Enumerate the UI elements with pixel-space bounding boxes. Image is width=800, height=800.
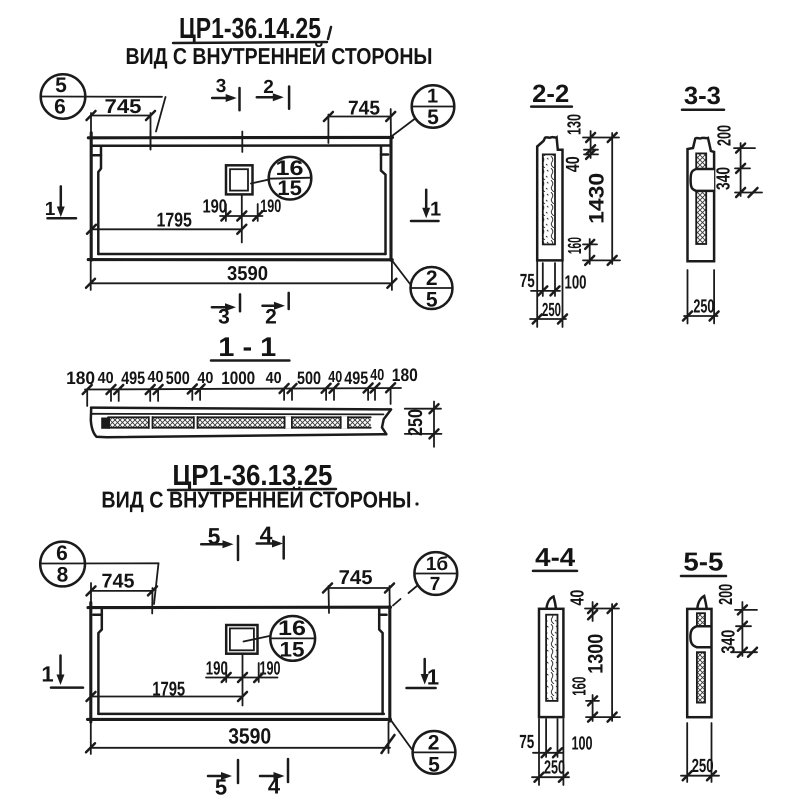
svg-text:2: 2	[428, 732, 440, 755]
section arrow 1 (right of top panel)	[411, 190, 441, 221]
title ЦР1-36.13.25 (bottom drawing)	[168, 460, 336, 492]
dimension 1795 (bottom panel)	[87, 679, 248, 702]
svg-text:75: 75	[520, 271, 535, 292]
rib gap 1 (section 1-1)	[149, 417, 153, 429]
svg-text:190: 190	[202, 197, 227, 218]
section 3-3 void lower hatched strip	[696, 191, 706, 244]
view marker 4 (bottom of bottom panel)	[260, 759, 288, 799]
svg-text:7: 7	[430, 574, 441, 595]
extension stubs below dimension line (section 1-1)	[87, 388, 390, 406]
dimension 340 (section 3-3)	[714, 167, 762, 197]
svg-text:180: 180	[392, 365, 418, 385]
section 5-5 void upper hatched strip	[697, 613, 705, 626]
svg-text:250: 250	[542, 300, 561, 321]
bottom dimensions 75/100/250 (section 4-4)	[519, 719, 592, 785]
left end outline (section 1-1)	[91, 408, 107, 437]
svg-text:40: 40	[266, 370, 282, 387]
panel body second line (section 1-1)	[91, 413, 383, 416]
section arrow 1 (left of top panel)	[45, 186, 76, 220]
section 5-5 body outline	[687, 609, 711, 717]
view marker 3 (top)	[212, 76, 239, 110]
svg-text:5: 5	[55, 74, 67, 97]
svg-text:1795: 1795	[156, 210, 192, 232]
svg-text:100: 100	[572, 734, 593, 755]
section 5-5 top tongue spike	[697, 596, 707, 609]
svg-text:1000: 1000	[221, 368, 255, 388]
svg-text:495: 495	[344, 368, 368, 388]
svg-text:160: 160	[569, 677, 590, 696]
opening centreline (bottom panel)	[242, 654, 244, 706]
svg-text:190: 190	[206, 659, 228, 680]
dimension 3590 (bottom panel)	[86, 722, 395, 754]
section arrow 1 (left of bottom panel)	[41, 656, 83, 688]
opening square (top panel)	[226, 165, 253, 194]
marker circle 2/5 (top panel)	[392, 261, 452, 312]
left end rib solid cut (section 1-1)	[101, 418, 110, 429]
svg-text:3590: 3590	[228, 724, 271, 749]
view marker 4 (top of bottom panel)	[257, 522, 284, 559]
section 3-3 body outline	[688, 138, 715, 261]
view marker 5 (top of bottom panel)	[201, 523, 238, 560]
section 2-2 void channel with fill	[543, 154, 555, 244]
svg-text:1: 1	[430, 199, 441, 221]
dimension 200 (section 5-5)	[716, 584, 757, 656]
svg-text:2-2: 2-2	[532, 80, 569, 108]
svg-text:1430: 1430	[585, 173, 608, 224]
svg-text:340: 340	[714, 167, 735, 190]
panel outline (bottom panel plan view)	[88, 603, 391, 723]
dimension 160 (section 2-2)	[565, 237, 620, 265]
dimension 745 left (bottom panel)	[87, 571, 158, 614]
svg-text:190: 190	[260, 659, 281, 680]
view marker 3 (bottom of top panel)	[212, 294, 240, 328]
svg-text:1: 1	[45, 199, 56, 220]
rib gap 4 (section 1-1)	[341, 417, 348, 429]
svg-text:130: 130	[565, 114, 586, 135]
svg-text:ЦР1-36.14.25: ЦР1-36.14.25	[179, 13, 321, 45]
insulation band with hatch (section 1-1)	[108, 417, 371, 427]
section 3-3 void upper hatched strip	[696, 153, 706, 169]
section 4-4 body outline	[539, 609, 563, 717]
panel inner bottom line (bottom panel)	[98, 713, 383, 716]
svg-text:5: 5	[427, 106, 439, 129]
axis tick at x=150 crossing panel top edge	[150, 131, 152, 150]
dimension 340 (section 5-5)	[718, 626, 757, 657]
svg-text:495: 495	[121, 368, 145, 388]
dimension 745 right (bottom panel)	[323, 567, 394, 613]
opening centreline (top panel)	[241, 194, 243, 242]
svg-text:1 - 1: 1 - 1	[218, 332, 276, 362]
svg-text:75: 75	[519, 732, 534, 753]
title 1 - 1 (middle section)	[211, 332, 289, 362]
svg-text:40: 40	[370, 367, 384, 384]
svg-text:3-3: 3-3	[684, 82, 721, 110]
dimension labels row (section 1-1)	[66, 365, 418, 388]
svg-text:200: 200	[715, 125, 736, 146]
panel outline (top panel plan view)	[88, 133, 392, 260]
svg-text:5: 5	[428, 754, 440, 777]
svg-text:500: 500	[297, 368, 321, 388]
section 5-5 void lower hatched strip	[697, 652, 705, 702]
dimension 200 (section 3-3)	[715, 125, 756, 196]
svg-text:745: 745	[339, 567, 373, 589]
section 4-4 top tongue spike	[547, 597, 557, 609]
dimension 250 (section 3-3)	[683, 270, 719, 324]
dimension 745 left (top panel)	[87, 96, 156, 150]
view marker 2 (top)	[257, 77, 289, 109]
marker circle 2/5 (bottom panel)	[391, 720, 456, 777]
bottom slab line (section 1-1)	[107, 434, 386, 437]
marker circle 6/8	[40, 542, 158, 604]
dimension 190/190 (bottom panel)	[206, 659, 281, 683]
marker circle 16/15 (top panel)	[251, 157, 311, 200]
svg-text:4-4: 4-4	[535, 542, 576, 572]
opening square (bottom panel)	[226, 625, 257, 654]
rib gap 3 (section 1-1)	[285, 417, 292, 429]
svg-text:1б: 1б	[426, 554, 448, 575]
svg-text:250: 250	[544, 758, 565, 779]
svg-text:ВИД С ВНУТРЕННЕЙ СТОРОНЫ: ВИД С ВНУТРЕННЕЙ СТОРОНЫ	[101, 487, 411, 513]
dimension 1430 (section 2-2)	[585, 133, 616, 265]
title ЦР1-36.14.25 (top drawing)	[173, 13, 331, 45]
marker circle 5/6	[41, 74, 166, 132]
svg-text:100: 100	[565, 273, 587, 294]
svg-text:16: 16	[278, 617, 306, 640]
panel inner bottom line (top panel)	[98, 253, 385, 256]
dimension 3590 (top panel)	[86, 261, 396, 290]
panel inner right contour with notch (bottom panel)	[379, 607, 386, 714]
section 2-2 body outline	[537, 137, 562, 260]
svg-text:15: 15	[280, 639, 305, 662]
section 5-5 projecting block	[690, 626, 710, 647]
svg-text:40: 40	[148, 369, 164, 386]
svg-text:340: 340	[718, 630, 739, 654]
section 4-4 void channel with fill	[546, 615, 557, 701]
svg-text:250: 250	[405, 409, 427, 436]
title 4-4	[533, 542, 577, 572]
dimension 40 (section 2-2)	[563, 150, 598, 173]
dimension 40 (section 4-4)	[568, 590, 619, 621]
svg-text:160: 160	[565, 237, 586, 254]
svg-text:250: 250	[693, 297, 714, 318]
svg-text:500: 500	[166, 368, 190, 388]
svg-text:745: 745	[102, 571, 135, 593]
svg-text:ВИД С ВНУТРЕННЕЙ СТОРОНЫ: ВИД С ВНУТРЕННЕЙ СТОРОНЫ	[126, 43, 433, 69]
dimension line (section 1-1)	[85, 388, 401, 390]
panel top ledge line (top panel)	[91, 144, 391, 147]
svg-text:190: 190	[260, 196, 281, 216]
svg-text:5-5: 5-5	[683, 547, 723, 577]
svg-text:3590: 3590	[227, 263, 268, 285]
title 5-5	[681, 547, 726, 577]
svg-text:8: 8	[57, 564, 69, 587]
panel inner left contour with notch (top panel)	[93, 146, 101, 254]
view marker 2 (bottom of top panel)	[263, 293, 289, 329]
svg-text:5: 5	[426, 289, 438, 312]
section arrow 1 (right of bottom panel)	[407, 659, 440, 690]
dimension 160 (section 4-4)	[569, 677, 620, 722]
dimension 745 right (top panel)	[324, 98, 395, 144]
dimension ticks (section 1-1)	[83, 383, 395, 394]
svg-text:200: 200	[716, 584, 737, 605]
panel body top surface line (section 1-1)	[91, 408, 391, 410]
dimension 250 (section 5-5)	[681, 723, 719, 782]
dimension 190/190 (top panel)	[202, 196, 281, 221]
svg-text:40: 40	[98, 370, 114, 387]
dimension 1300 (section 4-4)	[584, 604, 616, 722]
svg-text:1300: 1300	[584, 634, 607, 674]
title 3-3	[682, 82, 724, 110]
marker circle 1/5	[392, 85, 454, 136]
svg-text:6: 6	[54, 96, 66, 119]
bottom dimensions 75/100/250 (section 2-2)	[520, 262, 587, 327]
right end outline (section 1-1)	[382, 410, 391, 435]
svg-text:40: 40	[568, 590, 589, 606]
rib gap 2 (section 1-1)	[194, 417, 198, 429]
panel inner right contour with notch (top panel)	[381, 146, 388, 254]
section 3-3 projecting block	[691, 169, 715, 191]
dimension 130 (section 2-2)	[565, 114, 620, 158]
svg-text:2: 2	[263, 77, 274, 98]
panel inner left contour with notch (bottom panel)	[93, 608, 102, 714]
dimension 1795 (top panel)	[87, 210, 246, 234]
svg-text:250: 250	[692, 756, 714, 777]
svg-text:1: 1	[41, 662, 53, 687]
svg-text:6: 6	[56, 542, 68, 565]
view marker 5 (bottom of bottom panel)	[208, 760, 238, 800]
svg-text:2: 2	[426, 267, 438, 290]
marker circle 1б/7	[393, 552, 457, 605]
svg-text:40: 40	[563, 156, 584, 172]
svg-text:3: 3	[216, 76, 227, 97]
centre axis tick crossing panel top edge (top panel)	[241, 132, 243, 153]
subtitle ВИД С ВНУТРЕННЕЙ СТОРОНЫ (bottom drawing)	[101, 487, 418, 513]
svg-text:1: 1	[427, 86, 438, 108]
marker circle 16/15 (bottom panel)	[244, 616, 316, 662]
dimension 250 (section 1-1 right)	[405, 402, 442, 447]
title 2-2	[531, 80, 572, 108]
svg-text:1: 1	[427, 665, 439, 690]
